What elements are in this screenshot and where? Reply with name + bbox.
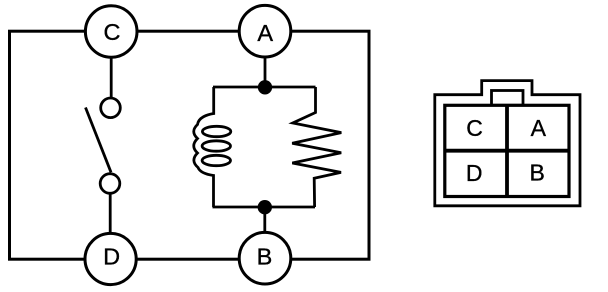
svg-text:D: D: [103, 244, 120, 270]
svg-text:B: B: [257, 243, 273, 269]
svg-text:B: B: [530, 160, 545, 186]
svg-text:C: C: [466, 115, 483, 141]
svg-text:D: D: [466, 160, 483, 186]
svg-text:A: A: [257, 20, 273, 46]
svg-text:A: A: [531, 115, 547, 141]
svg-text:C: C: [104, 19, 121, 45]
